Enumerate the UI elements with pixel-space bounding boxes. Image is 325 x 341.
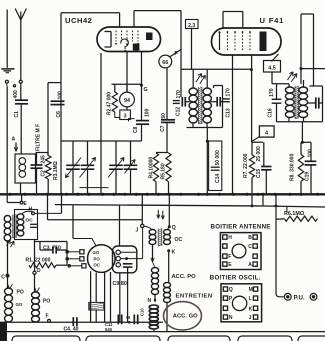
- svg-text:C16: C16: [268, 108, 274, 117]
- svg-text:M: M: [249, 287, 253, 293]
- svg-text:J: J: [136, 228, 139, 234]
- svg-text:C10: C10: [140, 308, 145, 316]
- svg-text:C7: C7: [160, 125, 166, 132]
- svg-text:R2.47 000: R2.47 000: [107, 92, 113, 115]
- svg-text:25 000: 25 000: [256, 146, 262, 162]
- svg-text:ACC. PO: ACC. PO: [172, 274, 197, 280]
- svg-text:BOITIER OSCIL.: BOITIER OSCIL.: [210, 274, 261, 281]
- svg-text:OC: OC: [175, 237, 183, 243]
- svg-text:H: H: [228, 235, 232, 241]
- svg-text:L: L: [249, 296, 252, 302]
- svg-text:94: 94: [124, 98, 130, 104]
- svg-text:D: D: [37, 268, 41, 274]
- svg-text:170: 170: [269, 88, 275, 97]
- svg-text:PO: PO: [94, 256, 101, 261]
- svg-text:Q: Q: [229, 287, 233, 293]
- svg-text:R1. 22 000: R1. 22 000: [26, 258, 51, 264]
- svg-text:A: A: [12, 137, 16, 143]
- svg-text:R3.1MΩ: R3.1MΩ: [53, 161, 59, 180]
- svg-text:G: G: [144, 87, 148, 93]
- svg-text:U F41: U F41: [260, 16, 285, 25]
- svg-text:ENTRETIEN: ENTRETIEN: [176, 293, 213, 299]
- svg-text:C2: C2: [41, 170, 47, 177]
- svg-text:N: N: [229, 315, 233, 321]
- svg-text:C8: C8: [133, 126, 139, 133]
- svg-text:C14: C14: [215, 174, 221, 183]
- svg-text:C19: C19: [305, 172, 311, 181]
- svg-text:C: C: [248, 244, 252, 250]
- svg-text:OC: OC: [94, 263, 100, 268]
- svg-text:GO: GO: [93, 250, 100, 255]
- svg-text:J: J: [249, 315, 252, 321]
- svg-text:R7. 22.000: R7. 22.000: [243, 153, 249, 178]
- svg-text:UCH42: UCH42: [65, 16, 92, 25]
- svg-text:PO: PO: [17, 290, 24, 296]
- svg-text:R6.1MΩ: R6.1MΩ: [284, 211, 305, 217]
- svg-text:FILTRE M F: FILTRE M F: [36, 124, 42, 151]
- svg-text:A: A: [248, 262, 252, 268]
- svg-text:N: N: [148, 298, 152, 304]
- svg-text:ACC. GO: ACC. GO: [173, 313, 198, 319]
- svg-text:4,5: 4,5: [268, 66, 276, 72]
- svg-text:170: 170: [226, 88, 232, 97]
- svg-text:OC: OC: [26, 218, 34, 224]
- svg-text:C15: C15: [256, 169, 262, 178]
- svg-text:170: 170: [176, 90, 182, 99]
- svg-text:R4.10000: R4.10000: [149, 157, 155, 179]
- svg-text:66: 66: [162, 60, 168, 66]
- svg-text:BOITIER ANTENNE: BOITIER ANTENNE: [211, 223, 271, 230]
- svg-text:K: K: [249, 306, 253, 312]
- svg-text:F: F: [175, 51, 178, 57]
- svg-text:2,3: 2,3: [188, 23, 195, 29]
- svg-text:GO: GO: [16, 302, 23, 307]
- svg-text:PO: PO: [43, 299, 50, 305]
- svg-text:50: 50: [161, 113, 167, 119]
- svg-text:3: 3: [124, 113, 127, 119]
- svg-text:F: F: [46, 314, 49, 320]
- svg-text:100: 100: [145, 108, 151, 117]
- svg-text:400: 400: [13, 90, 19, 99]
- svg-text:F: F: [228, 254, 231, 260]
- svg-text:P.U.: P.U.: [294, 294, 306, 301]
- svg-text:B: B: [248, 235, 252, 241]
- svg-text:C1: C1: [14, 111, 20, 118]
- svg-text:R8. 330.000: R8. 330.000: [290, 154, 296, 181]
- svg-text:50 000: 50 000: [215, 150, 221, 166]
- svg-text:C12: C12: [176, 107, 182, 116]
- svg-text:Q: Q: [172, 225, 176, 231]
- svg-text:C3. 750: C3. 750: [43, 245, 61, 251]
- svg-text:C: C: [1, 275, 5, 281]
- svg-text:C13: C13: [226, 108, 232, 117]
- svg-text:K: K: [172, 250, 176, 256]
